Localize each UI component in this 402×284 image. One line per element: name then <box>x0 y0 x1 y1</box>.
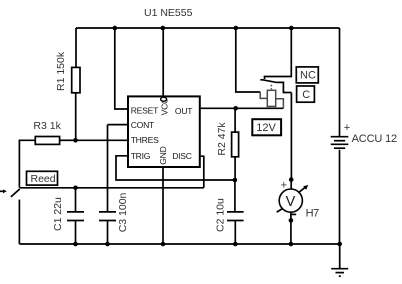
junction OUT / R2 <box>233 106 238 111</box>
node Y junction <box>73 186 78 191</box>
pin VCC top circle <box>162 28 164 96</box>
svg-text:R2 47k: R2 47k <box>216 122 228 156</box>
meter bottom junction <box>289 218 294 223</box>
svg-text:DISC: DISC <box>172 151 192 161</box>
svg-text:C: C <box>302 89 310 101</box>
ground symbol <box>339 244 341 269</box>
svg-text:R3 1k: R3 1k <box>33 120 61 132</box>
wire CONT pin <box>108 124 129 126</box>
svg-text:V: V <box>286 194 296 210</box>
op-amp U1 NE555 IC box <box>128 96 200 167</box>
wire battery bottom <box>339 150 341 244</box>
svg-text:C3 100n: C3 100n <box>117 192 129 232</box>
junction VCC rail <box>161 26 166 31</box>
junction C1 ground <box>73 242 78 247</box>
wire relay +12V branch from rail <box>236 28 260 92</box>
junction C3 ground <box>105 242 110 247</box>
svg-text:H7: H7 <box>306 208 320 220</box>
svg-text:RESET: RESET <box>131 105 159 115</box>
label box NC <box>296 67 318 83</box>
svg-text:R1 150k: R1 150k <box>55 51 67 91</box>
meter arrow NE <box>299 187 306 193</box>
wire R1 bottom <box>75 93 77 141</box>
junction RESET rail <box>113 26 118 31</box>
svg-text:Reed: Reed <box>31 173 56 185</box>
relay coil K1 <box>267 90 275 106</box>
svg-text:CONT: CONT <box>131 120 155 130</box>
junction relay rail <box>234 26 239 31</box>
wire R3 right to node X <box>60 139 76 141</box>
svg-text:OUT: OUT <box>175 106 193 116</box>
wire R3 left down to reed <box>19 140 35 187</box>
svg-text:12V: 12V <box>256 122 276 134</box>
meter minus sign <box>291 213 296 215</box>
resistor R1 <box>72 67 80 92</box>
wire THRES to node X <box>76 139 129 141</box>
wire meter top <box>290 180 292 189</box>
svg-text:NC: NC <box>300 70 316 82</box>
wire meter bottom <box>290 212 292 244</box>
meter H7 top junction <box>289 177 294 182</box>
label box Reed <box>27 171 58 185</box>
wire coil right step <box>276 99 284 109</box>
wire top supply rail <box>76 27 340 29</box>
svg-text:TRIG: TRIG <box>131 151 151 161</box>
wire NC contact from rail <box>265 28 292 79</box>
svg-text:ACCU 12: ACCU 12 <box>352 133 397 145</box>
svg-text:+: + <box>344 122 350 134</box>
junction TRIG / R2 / C2 <box>233 178 238 183</box>
relay link dashes <box>270 85 272 90</box>
svg-text:THRES: THRES <box>131 135 159 145</box>
wire bottom ground rail <box>19 243 339 245</box>
resistor R3 <box>35 137 59 145</box>
wire R1 top from rail <box>75 28 77 67</box>
wire OUT pin right <box>200 107 284 109</box>
capacitor C3 <box>107 125 109 212</box>
wire common down to meter <box>290 93 292 180</box>
wire battery top from rail <box>339 28 341 136</box>
meter V circle <box>279 189 302 212</box>
wire DISC pin down-left <box>200 156 204 188</box>
junction NC rail <box>289 26 294 31</box>
battery ACCU 12 plates <box>331 136 349 138</box>
wire reed/C1/DISC horizontal <box>19 187 203 189</box>
label box C <box>297 86 315 102</box>
wire coil left step <box>260 92 267 98</box>
meter arrow tail SW <box>277 208 283 212</box>
node X junction <box>73 138 78 143</box>
reed actuation arrow <box>0 190 5 192</box>
junction battery ground <box>337 242 342 247</box>
junction meter ground <box>289 242 294 247</box>
junction GND rail <box>161 242 166 247</box>
wire GND pin down <box>162 167 164 244</box>
svg-text:U1 NE555: U1 NE555 <box>144 7 193 19</box>
junction C2 ground <box>233 242 238 247</box>
switch Reed blade <box>11 189 20 197</box>
svg-text:C2 10u: C2 10u <box>215 198 227 232</box>
relay switch blade <box>260 80 291 93</box>
svg-text:GND: GND <box>158 146 168 164</box>
label box 12V <box>252 119 281 135</box>
wire RESET pin up to rail <box>115 28 128 109</box>
svg-text:C1 22u: C1 22u <box>52 197 64 231</box>
wire TRIG pin down and right <box>116 156 235 180</box>
capacitor C2 <box>234 180 236 211</box>
capacitor C1 <box>75 188 77 212</box>
resistor R2 <box>234 108 236 132</box>
wire reed bottom terminal <box>18 200 20 244</box>
